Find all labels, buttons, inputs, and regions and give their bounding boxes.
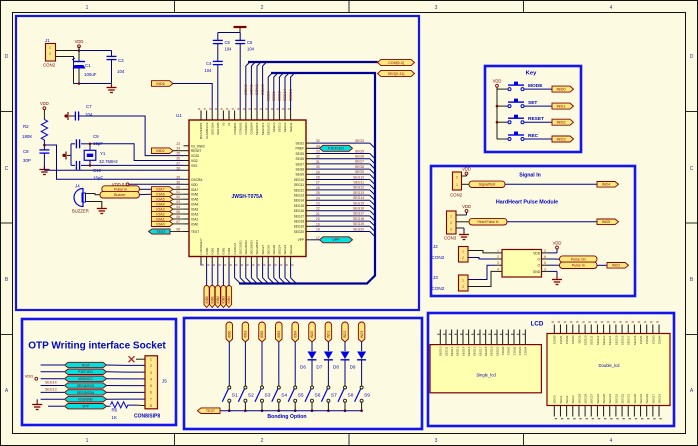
wire switch S1 to bus xyxy=(228,402,230,411)
svg-text:IOB4: IOB4 xyxy=(227,296,231,303)
svg-text:3: 3 xyxy=(435,5,438,11)
svg-text:CON2: CON2 xyxy=(43,63,56,68)
svg-text:SEG6: SEG6 xyxy=(295,157,304,161)
capacitor C8 30P xyxy=(39,150,49,166)
svg-text:VDD: VDD xyxy=(533,251,540,255)
svg-text:27: 27 xyxy=(176,161,180,165)
wire CON3 pin2 to port xyxy=(456,221,469,223)
svg-text:SEG30/D2: SEG30/D2 xyxy=(244,240,248,255)
wire key row REC xyxy=(497,138,552,140)
svg-text:C5: C5 xyxy=(225,40,231,45)
svg-text:2: 2 xyxy=(150,364,152,368)
bottom pin number ticks xyxy=(202,264,294,266)
power bar (top) xyxy=(234,27,247,33)
net flag IND1 xyxy=(552,103,574,109)
capacitor C3 104 xyxy=(107,51,117,84)
svg-text:SEG15/A: SEG15/A xyxy=(210,123,214,136)
svg-text:XI32: XI32 xyxy=(191,159,198,163)
svg-text:SEG19: SEG19 xyxy=(353,222,364,226)
svg-text:104: 104 xyxy=(225,47,233,52)
svg-text:IOB3: IOB3 xyxy=(222,247,226,254)
power VDD 0 xyxy=(112,182,129,187)
svg-text:IOB3: IOB3 xyxy=(277,331,281,338)
svg-text:BUZZER: BUZZER xyxy=(72,209,89,214)
svg-text:3: 3 xyxy=(150,371,152,375)
wire switch S3 to bus xyxy=(261,402,263,411)
svg-text:SEG28: SEG28 xyxy=(584,393,588,403)
svg-text:IND2: IND2 xyxy=(556,120,566,125)
Key title xyxy=(526,71,537,77)
junction R2/C8 xyxy=(43,144,46,147)
svg-text:VSS: VSS xyxy=(191,164,197,168)
label S7 xyxy=(331,393,337,399)
svg-text:180K: 180K xyxy=(22,134,32,139)
capacitor C10 15pF xyxy=(71,161,90,170)
svg-text:SEG13: SEG13 xyxy=(602,335,606,345)
svg-text:SEG17: SEG17 xyxy=(627,335,631,345)
svg-text:COM3: COM3 xyxy=(518,346,522,355)
svg-text:20: 20 xyxy=(316,217,320,221)
bus SEG bottom run xyxy=(239,280,371,284)
switch S3 xyxy=(255,386,264,402)
svg-text:CON2: CON2 xyxy=(432,255,445,260)
power flag PREF (cyan) xyxy=(312,145,353,151)
svg-text:SEG0: SEG0 xyxy=(553,395,557,403)
IC U2 pin names xyxy=(533,251,541,273)
ground (C8) xyxy=(39,166,49,175)
connector CON2 (signal) xyxy=(453,172,462,190)
svg-text:VPP: VPP xyxy=(332,238,340,242)
svg-text:TEST: TEST xyxy=(81,363,89,367)
Key section box xyxy=(485,66,581,152)
svg-text:SEG16: SEG16 xyxy=(620,335,624,345)
switch S2 xyxy=(238,386,247,402)
svg-text:SEG18: SEG18 xyxy=(484,346,488,356)
svg-text:COM[0-3]: COM[0-3] xyxy=(388,61,404,65)
svg-text:18: 18 xyxy=(316,228,320,232)
designator J1 xyxy=(45,38,50,43)
switch S9 xyxy=(355,386,364,402)
svg-text:SEG13: SEG13 xyxy=(278,122,282,132)
svg-text:SEG16: SEG16 xyxy=(294,209,305,213)
svg-text:SEG11: SEG11 xyxy=(444,346,448,356)
label S9 xyxy=(364,393,370,399)
svg-text:SEGI3/SDA: SEGI3/SDA xyxy=(77,391,95,395)
net flags IOA7-IOA0 xyxy=(152,187,174,227)
port Buzzer xyxy=(100,192,139,198)
junction J1 bottom xyxy=(78,82,81,85)
svg-text:30: 30 xyxy=(176,180,180,184)
svg-text:TEST: TEST xyxy=(206,409,216,413)
switch S7 xyxy=(321,386,330,402)
svg-text:17: 17 xyxy=(316,236,320,240)
IC U1 left pin names xyxy=(191,144,205,234)
ground (J1 circuit) xyxy=(107,84,117,93)
svg-text:RESET: RESET xyxy=(191,149,202,153)
Double_lcd bottom pin names xyxy=(553,393,662,403)
wire TEST to pin xyxy=(170,231,184,233)
svg-text:REC: REC xyxy=(528,133,539,139)
svg-text:SEG17: SEG17 xyxy=(294,214,305,218)
svg-text:SEG9: SEG9 xyxy=(577,335,581,343)
svg-text:4: 4 xyxy=(610,438,613,444)
wire VDD to VDD pin xyxy=(129,183,184,185)
svg-text:SEG10: SEG10 xyxy=(353,175,364,179)
svg-text:Pulse In: Pulse In xyxy=(114,187,127,191)
label C9 xyxy=(93,134,103,146)
svg-text:IOB2: IOB2 xyxy=(260,331,264,338)
wire R2 to C8 xyxy=(43,140,45,150)
svg-text:Key: Key xyxy=(526,71,537,77)
Double_lcd bottom pin ticks xyxy=(555,418,662,420)
svg-text:J5: J5 xyxy=(162,379,167,384)
junction crystal bottom xyxy=(89,164,92,167)
switch S1 xyxy=(222,386,231,402)
svg-text:SEG15: SEG15 xyxy=(294,204,305,208)
svg-text:C1: C1 xyxy=(85,63,91,68)
power flag TEST (cyan) xyxy=(149,229,171,234)
label S8 xyxy=(348,393,354,399)
svg-text:SEG13: SEG13 xyxy=(289,89,293,101)
wire J3 pin2 to U2 xyxy=(468,271,495,286)
svg-text:23: 23 xyxy=(176,142,180,146)
svg-text:IOA0: IOA0 xyxy=(191,222,198,226)
svg-text:15pF: 15pF xyxy=(93,176,103,181)
svg-text:33: 33 xyxy=(316,150,320,154)
svg-text:IOA2: IOA2 xyxy=(156,212,164,216)
wires COM0-COM3 to bus xyxy=(246,62,267,111)
svg-text:32: 32 xyxy=(316,155,320,159)
svg-text:D: D xyxy=(5,54,9,60)
ground (OTP) xyxy=(32,399,42,409)
svg-text:SEG5: SEG5 xyxy=(355,149,364,153)
label SET xyxy=(528,100,537,106)
ground (buzzer) xyxy=(97,205,107,214)
left pin numbers xyxy=(176,142,180,232)
wire bonding 2 xyxy=(244,342,246,386)
svg-text:IND2: IND2 xyxy=(343,331,347,338)
wire J1 pin2 down xyxy=(56,57,74,84)
svg-text:COM0/I1: COM0/I1 xyxy=(233,122,237,134)
svg-text:21: 21 xyxy=(316,212,320,216)
svg-text:29: 29 xyxy=(316,170,320,174)
wire bonding 9 lower xyxy=(361,360,363,386)
net labels SEG (vertical) xyxy=(266,89,292,101)
svg-text:SEG13: SEG13 xyxy=(456,346,460,356)
wire IND2 flag to pin24 xyxy=(173,150,184,152)
pushbutton SREC xyxy=(508,132,524,141)
net flag IND5 xyxy=(597,219,619,225)
svg-text:VDD: VDD xyxy=(25,374,34,379)
svg-text:P1EF1EO: P1EF1EO xyxy=(78,370,93,374)
bus flag SEG[0-31] xyxy=(378,70,415,76)
svg-text:SEG16: SEG16 xyxy=(657,393,661,403)
svg-text:VDD: VDD xyxy=(75,39,84,44)
svg-text:2: 2 xyxy=(544,249,546,253)
svg-text:S9: S9 xyxy=(364,393,370,399)
svg-text:CON2: CON2 xyxy=(432,286,445,291)
wire con pin2 to VDD xyxy=(462,175,467,176)
Single_lcd pin names xyxy=(439,346,528,356)
svg-text:02: 02 xyxy=(176,195,180,199)
svg-text:VDD: VDD xyxy=(191,183,198,187)
svg-text:30: 30 xyxy=(316,165,320,169)
power flags OTP (cyan) xyxy=(65,362,107,409)
J5 pin numbers xyxy=(150,358,152,408)
svg-text:SEG2: SEG2 xyxy=(295,142,304,146)
svg-text:1: 1 xyxy=(150,358,152,362)
svg-text:7: 7 xyxy=(150,397,152,401)
svg-text:SEG12: SEG12 xyxy=(294,188,305,192)
designator J5 xyxy=(162,379,167,384)
Single_lcd top pins xyxy=(440,330,525,345)
net flag IND2 (reset) xyxy=(152,148,174,154)
svg-text:P1EF1EO: P1EF1EO xyxy=(328,147,344,151)
svg-text:Pulse In: Pulse In xyxy=(572,264,585,268)
svg-text:IOA3: IOA3 xyxy=(191,208,198,212)
label S3 xyxy=(265,393,271,399)
svg-text:C7: C7 xyxy=(86,104,92,109)
svg-text:3: 3 xyxy=(497,261,499,265)
svg-text:IND4: IND4 xyxy=(602,183,610,187)
svg-text:SEG10: SEG10 xyxy=(294,178,305,182)
wire bonding 4 xyxy=(278,342,280,386)
svg-text:COM0: COM0 xyxy=(244,84,248,95)
junction S3 xyxy=(261,409,264,412)
wire key row RESET xyxy=(497,121,552,123)
label MODE xyxy=(528,83,543,89)
bus flag COM[0-3] xyxy=(378,59,415,65)
svg-text:IND1: IND1 xyxy=(327,331,331,338)
svg-text:C8: C8 xyxy=(23,149,29,154)
wire XI32 row xyxy=(90,164,184,166)
svg-text:VDD/VCC: VDD/VCC xyxy=(78,377,93,381)
wire buzzer to ground xyxy=(85,202,102,206)
pushbutton SSET xyxy=(508,99,524,108)
svg-text:SEG[0-31]: SEG[0-31] xyxy=(388,72,405,76)
LCD module Double_lcd xyxy=(547,334,670,406)
svg-text:COM4: COM4 xyxy=(657,335,661,344)
svg-text:SEG28/D4: SEG28/D4 xyxy=(255,240,259,255)
svg-text:RESET: RESET xyxy=(528,116,544,122)
LCD section box xyxy=(428,313,674,426)
svg-text:IND1: IND1 xyxy=(556,104,566,109)
svg-text:VDD: VDD xyxy=(553,240,562,245)
junction J1 rail xyxy=(78,49,81,52)
svg-text:Bonding Option: Bonding Option xyxy=(267,414,306,420)
wire reset to OSCPLL pin xyxy=(44,145,183,179)
net labels COM0-3 (vertical) xyxy=(244,84,265,95)
wire switch S9 to bus xyxy=(361,402,363,411)
svg-text:COM3: COM3 xyxy=(651,335,655,344)
designator J3 xyxy=(432,275,445,291)
svg-text:COM1: COM1 xyxy=(559,335,563,344)
port SignalTest xyxy=(469,181,505,187)
ground (U2) xyxy=(549,271,562,284)
svg-text:SEG16/B: SEG16/B xyxy=(216,123,220,136)
capacitor C4 104 xyxy=(213,61,223,110)
svg-text:SEG26: SEG26 xyxy=(266,244,270,254)
svg-text:CON3: CON3 xyxy=(444,236,457,241)
label D7 xyxy=(316,365,322,370)
svg-text:SEG12: SEG12 xyxy=(353,186,364,190)
svg-text:IOA7: IOA7 xyxy=(156,188,164,192)
svg-text:SEG31/D1: SEG31/D1 xyxy=(238,240,242,255)
connector CON3 xyxy=(447,211,457,234)
connector J5 xyxy=(145,356,158,409)
wire R6 to pin8 xyxy=(136,404,145,407)
wire bonding 9 upper xyxy=(361,342,363,351)
svg-text:J2: J2 xyxy=(433,244,438,249)
svg-text:SEGI4/SCK: SEGI4/SCK xyxy=(77,384,95,388)
svg-text:SEG15: SEG15 xyxy=(614,335,618,345)
svg-text:R6: R6 xyxy=(112,408,118,413)
wire pin36 stub xyxy=(200,264,202,266)
svg-text:IND2: IND2 xyxy=(156,149,164,153)
label S6 xyxy=(315,393,321,399)
junction S6 xyxy=(311,409,314,412)
svg-text:30P: 30P xyxy=(23,158,31,163)
power VDD (CON3) xyxy=(462,204,471,213)
label R6 xyxy=(112,408,118,421)
IC U1 right pin names xyxy=(294,142,305,243)
svg-text:SEG19: SEG19 xyxy=(639,393,643,403)
svg-text:LVD/SEG27: LVD/SEG27 xyxy=(199,238,203,254)
label S5 xyxy=(298,393,304,399)
svg-text:BUZZER/P2: BUZZER/P2 xyxy=(199,122,203,139)
svg-text:SEG0: SEG0 xyxy=(266,91,270,101)
svg-text:1: 1 xyxy=(86,5,89,11)
svg-text:4: 4 xyxy=(610,5,613,11)
svg-text:26: 26 xyxy=(176,157,180,161)
svg-text:SEG23: SEG23 xyxy=(614,393,618,403)
svg-text:IOB4: IOB4 xyxy=(227,247,231,254)
svg-text:34: 34 xyxy=(316,144,320,148)
svg-text:SEG9: SEG9 xyxy=(295,173,304,177)
svg-text:S6: S6 xyxy=(315,393,321,399)
wire J2 pin2 to U2 xyxy=(468,258,495,260)
wire bonding 7 upper xyxy=(327,342,329,351)
junction S8 xyxy=(344,409,347,412)
svg-text:D8: D8 xyxy=(333,365,339,370)
svg-text:SEG27: SEG27 xyxy=(261,244,265,254)
designator J4 xyxy=(75,184,80,189)
junction S5 xyxy=(294,409,297,412)
wire J1 bottom rail xyxy=(74,83,112,85)
diode D8 xyxy=(341,352,350,360)
wire VDD to R2 xyxy=(43,110,45,120)
svg-text:SEG27: SEG27 xyxy=(590,393,594,403)
svg-text:8: 8 xyxy=(150,404,152,408)
wire bonding 6 upper xyxy=(311,342,313,351)
svg-text:03: 03 xyxy=(176,200,180,204)
svg-text:C3: C3 xyxy=(118,58,124,63)
IC U2 pulse module xyxy=(502,250,542,278)
svg-text:COM1: COM1 xyxy=(639,335,643,344)
svg-text:XO32: XO32 xyxy=(191,154,199,158)
svg-text:SEG1: SEG1 xyxy=(559,395,563,403)
svg-text:2: 2 xyxy=(450,221,452,225)
Double_lcd top pin ticks xyxy=(552,321,659,323)
svg-text:2: 2 xyxy=(261,5,264,11)
svg-text:SEG24: SEG24 xyxy=(608,393,612,403)
bus SEG[0-31] xyxy=(271,73,375,280)
svg-text:IOA5: IOA5 xyxy=(191,198,198,202)
svg-text:VDD: VDD xyxy=(462,166,471,171)
svg-text:SEG22: SEG22 xyxy=(620,393,624,403)
svg-text:Heart Pulse In: Heart Pulse In xyxy=(478,220,499,224)
svg-text:COM3/I4: COM3/I4 xyxy=(250,122,254,134)
LCD title xyxy=(531,321,544,328)
svg-text:23: 23 xyxy=(316,202,320,206)
port Pulse In (U2) xyxy=(549,262,597,268)
svg-text:VDD: VDD xyxy=(493,79,502,84)
svg-text:SET: SET xyxy=(528,100,537,106)
net label SEG13 xyxy=(45,388,57,392)
svg-text:SEG2/C2: SEG2/C2 xyxy=(266,122,270,135)
wire Pulse In to IND2 xyxy=(597,264,607,266)
svg-text:SEG8: SEG8 xyxy=(295,168,304,172)
capacitor C1 100uF xyxy=(72,51,86,84)
svg-text:6: 6 xyxy=(150,391,152,395)
svg-text:COM2: COM2 xyxy=(255,84,259,95)
svg-text:C: C xyxy=(690,166,694,172)
wire SignalTest to IND4 xyxy=(505,183,597,185)
svg-text:SEG17: SEG17 xyxy=(353,212,364,216)
OTP title xyxy=(28,341,166,352)
svg-text:SEG9: SEG9 xyxy=(355,170,364,174)
svg-text:COM0: COM0 xyxy=(553,335,557,344)
wire Key VDD rail xyxy=(496,88,498,140)
label HardHeart Pulse Module xyxy=(496,200,558,206)
wire C7 to pin25 xyxy=(79,116,184,156)
svg-text:IOB2: IOB2 xyxy=(216,247,220,254)
Bonding section box xyxy=(184,318,422,429)
svg-text:COM2: COM2 xyxy=(645,335,649,344)
svg-text:SEG3: SEG3 xyxy=(355,139,364,143)
svg-text:S3: S3 xyxy=(265,393,271,399)
svg-text:LCD: LCD xyxy=(531,321,544,328)
svg-text:S5: S5 xyxy=(298,393,304,399)
svg-text:2: 2 xyxy=(497,255,499,259)
label S1 xyxy=(232,393,238,399)
svg-text:SEG25: SEG25 xyxy=(602,393,606,403)
svg-text:SEG17: SEG17 xyxy=(478,346,482,356)
wire key row MODE xyxy=(497,88,552,90)
svg-text:Single_lcd: Single_lcd xyxy=(476,373,496,378)
junction crystal top xyxy=(89,143,92,146)
svg-text:SEG14: SEG14 xyxy=(353,196,364,200)
svg-text:SEG18: SEG18 xyxy=(633,335,637,345)
svg-text:HardHeart Pulse Module: HardHeart Pulse Module xyxy=(496,200,558,206)
svg-text:IOA7: IOA7 xyxy=(191,188,198,192)
right pin numbers xyxy=(316,139,320,240)
IC U1 bottom pin names xyxy=(199,238,293,254)
svg-text:IOA1: IOA1 xyxy=(156,217,164,221)
label Y1 xyxy=(99,151,118,164)
wire Pulse In port to IOA7 xyxy=(139,188,151,190)
svg-text:R2: R2 xyxy=(23,124,29,129)
wires SEG3-SEG20 with bus entries xyxy=(312,143,375,237)
svg-text:SEG13: SEG13 xyxy=(353,191,364,195)
wire XO32 row xyxy=(90,144,184,161)
svg-text:SEG10: SEG10 xyxy=(439,346,443,356)
svg-text:1: 1 xyxy=(450,215,452,219)
svg-text:26: 26 xyxy=(316,186,320,190)
svg-text:24: 24 xyxy=(176,147,180,151)
label CON2 (J1) xyxy=(43,63,56,68)
svg-text:08: 08 xyxy=(176,228,180,232)
